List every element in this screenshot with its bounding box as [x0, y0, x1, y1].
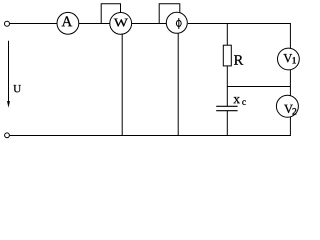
wire: V1 to middle wire — [289, 70, 291, 87]
wire: resistor to capacitor through mid junction — [226, 66, 228, 106]
wire: wattmeter to phase meter — [132, 23, 167, 25]
bottom wire — [10, 135, 291, 137]
wire: capacitor to bottom wire — [226, 111, 228, 136]
label U — [13, 85, 20, 92]
wire: top terminal to ammeter — [10, 23, 57, 25]
label phi — [176, 18, 181, 29]
wire: wattmeter down to bottom wire — [121, 34, 123, 135]
phase meter voltage-coil bracket — [159, 4, 180, 24]
voltage arrow U — [7, 41, 10, 108]
wire: right corner down to voltmeter V1 — [289, 24, 291, 49]
label V2 — [284, 105, 296, 115]
wire: mid junction to voltmeter branch — [227, 86, 291, 88]
terminal input top — [5, 21, 10, 26]
label A — [62, 16, 73, 26]
wire: top wire branch down to resistor — [226, 24, 228, 46]
wire: phase meter down to bottom wire — [177, 34, 179, 136]
voltmeter V1 — [278, 48, 300, 70]
wattmeter voltage-coil bracket — [101, 4, 120, 24]
terminal input bottom — [5, 133, 10, 138]
wire: middle wire to V2 — [289, 87, 291, 96]
wattmeter W — [110, 13, 132, 35]
wire: phase meter to top right corner — [188, 23, 291, 25]
capacitor Xc — [216, 106, 237, 110]
label R — [234, 55, 243, 64]
label V1 — [283, 54, 295, 63]
resistor R — [223, 45, 231, 66]
wire: V2 down to bottom wire — [289, 117, 291, 136]
wire: ammeter to wattmeter — [79, 23, 110, 25]
ammeter A — [57, 12, 79, 34]
label W — [114, 19, 128, 27]
phase meter phi — [166, 12, 187, 33]
label Xc — [233, 97, 245, 105]
voltmeter V2 — [276, 95, 298, 117]
